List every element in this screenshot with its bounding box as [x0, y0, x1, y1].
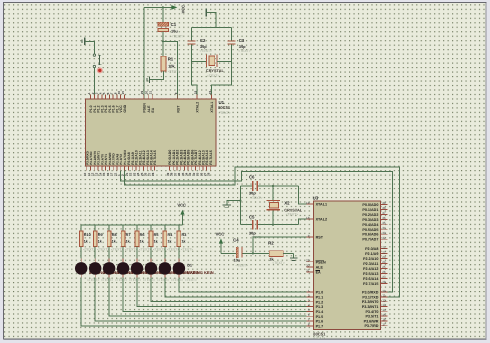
svg-text:VCC: VCC — [180, 5, 185, 14]
ground (R1) — [147, 76, 150, 83]
U3 pins P1.0-P1.7 — [307, 289, 325, 329]
svg-text:12: 12 — [382, 298, 386, 302]
part name CRYSTAL (X2) — [284, 208, 303, 213]
value 30p (C3) — [239, 44, 246, 49]
power terminal VCC (C4) — [216, 232, 225, 254]
svg-text:P2.2/A10: P2.2/A10 — [363, 257, 378, 261]
wire R2 to ground — [283, 252, 294, 254]
svg-text:P2.0/A8: P2.0/A8 — [365, 247, 378, 251]
U1 pin XTAL1 — [208, 91, 214, 113]
svg-text:ALE: ALE — [316, 266, 324, 270]
label CRYSTAL (X1) — [206, 68, 225, 73]
wire C6 to right rail — [258, 185, 299, 187]
svg-text:XTAL1: XTAL1 — [316, 203, 327, 207]
svg-text:C4: C4 — [233, 237, 239, 242]
svg-text:21: 21 — [382, 245, 386, 249]
part name (D6) — [117, 270, 144, 275]
wire right rail to C3 — [231, 27, 233, 40]
text placeholder (R6) — [139, 247, 151, 251]
value 1k (R3) — [182, 240, 186, 244]
text placeholder (R1) — [168, 69, 181, 73]
svg-text:<TEXT>: <TEXT> — [168, 69, 181, 73]
label C3 — [239, 38, 245, 43]
part name (D7) — [103, 270, 130, 275]
label D2 — [173, 263, 178, 267]
svg-text:31: 31 — [149, 91, 153, 95]
U3 pins P0.0-P0.7 — [362, 201, 387, 241]
text placeholder (R3) — [181, 247, 193, 251]
svg-text:P3.6/WR: P3.6/WR — [364, 319, 379, 323]
capacitor C6 — [252, 181, 258, 191]
svg-text:<TEXT>: <TEXT> — [272, 261, 285, 265]
text placeholder (R2) — [272, 261, 285, 265]
svg-text:27: 27 — [382, 275, 386, 279]
svg-text:14: 14 — [382, 308, 386, 312]
capacitor C5 — [252, 220, 258, 230]
label C1 — [171, 22, 177, 27]
wire to U3 XTAL1 — [299, 186, 307, 204]
svg-text:P2.7/A15: P2.7/A15 — [153, 150, 157, 165]
resistor R1 — [161, 56, 166, 71]
svg-text:34: 34 — [382, 226, 386, 230]
text placeholder (D7) — [101, 278, 113, 282]
ground (R2) — [290, 253, 298, 260]
label C5 — [249, 215, 255, 220]
text placeholder (C3) — [238, 49, 251, 53]
svg-text:17: 17 — [382, 322, 386, 326]
svg-text:P1.3: P1.3 — [316, 305, 324, 309]
svg-text:P3.7/RD: P3.7/RD — [364, 324, 378, 328]
value 10u (C4) — [234, 258, 241, 263]
part name (D3) — [159, 270, 186, 275]
U1 pins PSEN/ALE/EA — [140, 91, 155, 113]
svg-text:<TEXT>: <TEXT> — [218, 111, 231, 115]
LED D5 — [117, 259, 130, 278]
svg-text:<TEXT>: <TEXT> — [83, 247, 95, 251]
text placeholder (R9) — [97, 247, 109, 251]
value 1k (R5) — [154, 240, 158, 244]
label C2 — [200, 38, 206, 43]
label R4 — [168, 233, 174, 237]
svg-text:11: 11 — [382, 294, 385, 298]
label U3 — [313, 195, 319, 200]
value 30p (C2) — [200, 44, 207, 49]
svg-text:R9: R9 — [98, 233, 103, 237]
part name (D2) — [173, 270, 200, 275]
resistor R10 — [79, 225, 83, 259]
label R5 — [154, 233, 159, 237]
label U1 — [219, 100, 225, 105]
svg-text:<TEXT>: <TEXT> — [171, 278, 183, 282]
svg-text:25: 25 — [382, 265, 386, 269]
svg-text:28: 28 — [207, 172, 211, 176]
LED D8 — [75, 259, 88, 278]
value 10k (R1) — [168, 63, 175, 68]
svg-text:R10: R10 — [84, 233, 91, 237]
wire VCC rail to C1 — [162, 7, 164, 22]
svg-text:22: 22 — [382, 250, 386, 254]
svg-text:38: 38 — [382, 206, 386, 210]
LED D3 — [145, 259, 158, 278]
label R7 — [126, 233, 131, 237]
svg-text:GND: GND — [123, 104, 127, 112]
svg-text:18: 18 — [193, 91, 197, 95]
svg-text:<TEXT>: <TEXT> — [157, 278, 169, 282]
wire R1 to ground — [150, 71, 164, 80]
label X2 — [284, 201, 290, 206]
svg-text:R5: R5 — [154, 233, 159, 237]
svg-text:VCC: VCC — [177, 202, 186, 207]
svg-text:29: 29 — [306, 259, 310, 263]
wire C1 to R1 — [162, 32, 164, 57]
svg-text:P0.6/AD6: P0.6/AD6 — [362, 233, 378, 237]
wire VCC to U1 EA pin — [143, 7, 145, 99]
svg-text:6: 6 — [308, 313, 310, 317]
svg-text:28: 28 — [151, 172, 155, 176]
svg-text:5: 5 — [308, 308, 310, 312]
U1 pins P2.0-P2.7 (bottom middle) — [125, 150, 157, 176]
svg-text:P0.5/AD5: P0.5/AD5 — [362, 228, 378, 232]
svg-text:<TEXT>: <TEXT> — [101, 278, 113, 282]
U1 pins P3.0-P3.7 (bottom left) — [83, 149, 127, 176]
text placeholder (C2) — [199, 49, 212, 53]
label D1 — [187, 263, 192, 267]
svg-text:R3: R3 — [182, 233, 187, 237]
svg-text:9: 9 — [308, 234, 310, 238]
svg-text:<TEXT>: <TEXT> — [171, 35, 184, 39]
svg-text:RST: RST — [316, 236, 324, 240]
svg-text:1k: 1k — [182, 240, 186, 244]
svg-text:10: 10 — [382, 289, 386, 293]
svg-text:1k: 1k — [84, 240, 88, 244]
svg-text:R1: R1 — [168, 56, 174, 61]
svg-text:1k: 1k — [154, 240, 158, 244]
svg-text:19: 19 — [208, 91, 212, 95]
svg-text:D1: D1 — [187, 263, 192, 267]
svg-text:39: 39 — [382, 201, 386, 205]
power terminal VCC (top) — [144, 5, 186, 14]
wire to U3 XTAL2 — [299, 219, 307, 225]
value 1k (R10) — [84, 240, 88, 244]
resistor R9 — [93, 225, 97, 259]
ground (button) — [82, 37, 85, 44]
svg-text:R7: R7 — [126, 233, 131, 237]
svg-text:31: 31 — [306, 269, 310, 273]
text placeholder (R10) — [83, 247, 95, 251]
svg-text:P0.1/AD1: P0.1/AD1 — [362, 208, 378, 212]
ground (X2 caps) — [222, 201, 240, 208]
part name 80C51 (U1) — [218, 105, 231, 110]
wire left rail to crystal — [192, 61, 207, 63]
svg-text:<TEXT>: <TEXT> — [115, 278, 127, 282]
svg-text:24: 24 — [382, 260, 386, 264]
svg-text:PSEN: PSEN — [142, 103, 146, 113]
text placeholder (U1) — [218, 111, 231, 115]
text placeholder (R8) — [111, 247, 123, 251]
wire RST to U3 — [253, 237, 307, 253]
op U3 body — [313, 201, 380, 329]
value 1k (R8) — [112, 240, 116, 244]
label C4 — [233, 237, 239, 242]
svg-text:P3.0/RXD: P3.0/RXD — [362, 291, 379, 295]
label R6 — [140, 233, 145, 237]
svg-text:P1.5: P1.5 — [316, 315, 324, 319]
svg-text:C5: C5 — [249, 215, 255, 220]
wire bottom rail to C5 — [240, 224, 252, 226]
svg-text:7: 7 — [308, 318, 310, 322]
junction RST net — [252, 252, 254, 254]
svg-text:X2: X2 — [284, 201, 290, 206]
svg-text:<TEXT>: <TEXT> — [125, 247, 137, 251]
wire U1 TXD to U3 P3.0 — [121, 171, 393, 292]
value 1k (R9) — [98, 240, 102, 244]
svg-text:<TEXT>: <TEXT> — [139, 247, 151, 251]
wire D2 to U3 P1.1 — [165, 278, 307, 297]
svg-text:R6: R6 — [140, 233, 145, 237]
wire C3 to XTAL1 pin — [211, 45, 231, 100]
label D7 — [103, 263, 108, 267]
wire left rail to C2 — [191, 27, 193, 40]
junction ground tap — [239, 200, 241, 202]
svg-text:P3.2/INT0: P3.2/INT0 — [362, 300, 379, 304]
svg-text:EA: EA — [151, 107, 155, 112]
svg-text:32: 32 — [382, 236, 386, 240]
part name (D1) — [187, 270, 214, 275]
svg-text:<TEXT>: <TEXT> — [129, 278, 141, 282]
wire X2 left rail — [239, 186, 241, 225]
svg-text:C6: C6 — [249, 175, 255, 180]
svg-text:P2.5/A13: P2.5/A13 — [363, 272, 378, 276]
svg-text:10k: 10k — [168, 63, 175, 68]
svg-text:P0.2/AD2: P0.2/AD2 — [362, 213, 378, 217]
text placeholder (R5) — [153, 247, 165, 251]
text placeholder (D4) — [143, 278, 155, 282]
svg-text:13: 13 — [382, 303, 386, 307]
text placeholder (D8) — [87, 278, 99, 282]
junction X2 top — [272, 185, 274, 187]
svg-text:<TEXT>: <TEXT> — [97, 247, 109, 251]
svg-text:P3.3/INT1: P3.3/INT1 — [362, 305, 379, 309]
text placeholder (X1) — [207, 74, 220, 78]
U3 pins P2.0-P2.7 — [363, 245, 387, 286]
svg-text:P2.3/A11: P2.3/A11 — [363, 262, 378, 266]
svg-text:XTAL2: XTAL2 — [196, 102, 200, 113]
resistor R2 — [269, 251, 283, 257]
svg-text:23: 23 — [382, 255, 386, 259]
wire button to U1 P1.1 — [93, 68, 95, 100]
crystal X2 — [266, 200, 280, 211]
svg-text:<TEXT>: <TEXT> — [238, 49, 251, 53]
wire crystal top rail — [192, 26, 232, 28]
crystal X1 — [207, 55, 217, 68]
svg-text:1: 1 — [308, 289, 310, 293]
text placeholder (X2) — [286, 213, 299, 217]
svg-text:20: 20 — [121, 91, 125, 95]
ground (crystal loop) — [206, 9, 216, 28]
text placeholder (C4) — [235, 263, 248, 267]
value 1k (R6) — [140, 240, 144, 244]
label R9 — [98, 233, 103, 237]
wire C1 bottom to RST pin — [163, 41, 178, 99]
svg-text:U3: U3 — [313, 195, 319, 200]
svg-text:CRYSTAL: CRYSTAL — [206, 68, 225, 73]
U3 pins XTAL/RST/PSEN/ALE/EA — [306, 201, 327, 275]
svg-text:16: 16 — [382, 318, 386, 322]
U1 pins P0.0-P0.7 (bottom right) — [166, 150, 213, 176]
capacitor C4 — [236, 247, 242, 258]
junction C1/RST — [162, 40, 164, 42]
wire D5 to U3 P1.4 — [123, 278, 307, 312]
svg-text:P0.4/AD4: P0.4/AD4 — [362, 223, 379, 227]
svg-text:80C51: 80C51 — [218, 105, 231, 110]
svg-text:<TEXT>: <TEXT> — [250, 196, 263, 200]
svg-text:RST: RST — [176, 105, 180, 113]
label D5 — [131, 263, 136, 267]
resistor R5 — [149, 225, 153, 259]
svg-text:<TEXT>: <TEXT> — [199, 49, 212, 53]
svg-text:P2.4/A12: P2.4/A12 — [363, 267, 378, 271]
resistor R3 — [177, 225, 181, 259]
text placeholder (R7) — [125, 247, 137, 251]
svg-text:<TEXT>: <TEXT> — [207, 74, 220, 78]
svg-text:C3: C3 — [239, 38, 245, 43]
wire D1 to U3 P1.0 — [179, 278, 307, 293]
part name (D4) — [145, 270, 172, 275]
svg-text:P1.0: P1.0 — [316, 291, 324, 295]
LED D7 — [89, 259, 102, 278]
svg-text:<TEXT>: <TEXT> — [111, 247, 123, 251]
svg-text:1k: 1k — [98, 240, 102, 244]
label R3 — [182, 233, 187, 237]
part name (D5) — [131, 270, 158, 275]
capacitor C2 — [188, 40, 196, 44]
resistor R6 — [135, 225, 139, 259]
label R2 — [268, 240, 274, 245]
U1 pin XTAL2 — [193, 91, 199, 113]
wire D4 to U3 P1.3 — [137, 278, 307, 307]
svg-text:<TEXT>: <TEXT> — [313, 336, 325, 340]
push button SW1 — [93, 54, 101, 68]
svg-text:P2.6/A14: P2.6/A14 — [363, 277, 379, 281]
svg-text:33: 33 — [382, 231, 386, 235]
text placeholder (C5) — [250, 235, 263, 239]
wire D6 to U3 P1.5 — [109, 278, 306, 317]
power terminal VCC (LEDs) — [177, 202, 186, 225]
svg-text:30: 30 — [306, 264, 310, 268]
svg-text:<TEXT>: <TEXT> — [153, 247, 165, 251]
svg-text:10u: 10u — [171, 28, 178, 33]
svg-text:R2: R2 — [268, 240, 274, 245]
svg-text:P0.0/AD0: P0.0/AD0 — [362, 203, 378, 207]
svg-text:28: 28 — [382, 280, 386, 284]
U1 pins P1.0-P1.7 (top) — [87, 91, 127, 113]
svg-text:<TEXT>: <TEXT> — [181, 247, 193, 251]
label R8 — [112, 233, 117, 237]
resistor R8 — [107, 225, 111, 259]
svg-text:<TEXT>: <TEXT> — [143, 278, 155, 282]
wire D3 to U3 P1.2 — [151, 278, 307, 302]
text placeholder (D5) — [129, 278, 141, 282]
svg-text:P3.4/T0: P3.4/T0 — [365, 310, 378, 314]
value 1k (R2) — [269, 256, 274, 261]
text placeholder (D6) — [115, 278, 127, 282]
text placeholder (U3) — [313, 336, 325, 340]
svg-text:P0.7/AD7: P0.7/AD7 — [362, 238, 378, 242]
svg-text:XTAL2: XTAL2 — [316, 218, 327, 222]
wire C2 to XTAL2 pin — [192, 45, 197, 100]
wire crystal to right rail — [217, 61, 232, 63]
capacitor C3 — [228, 40, 236, 44]
text placeholder (D1) — [185, 278, 197, 282]
svg-text:R8: R8 — [112, 233, 117, 237]
resistor R7 — [121, 225, 125, 259]
svg-text:1k: 1k — [168, 240, 172, 244]
svg-text:36: 36 — [382, 216, 386, 220]
wire ground to button — [85, 41, 94, 53]
wire C5 to right rail — [258, 224, 299, 226]
svg-text:29: 29 — [140, 91, 144, 95]
svg-text:P1.2: P1.2 — [316, 300, 324, 304]
label D3 — [159, 263, 164, 267]
value 1k (R7) — [126, 240, 130, 244]
svg-text:<TEXT>: <TEXT> — [167, 247, 179, 251]
wire LED VCC rail — [81, 224, 182, 226]
label R1 — [168, 56, 174, 61]
svg-text:<TEXT>: <TEXT> — [235, 263, 248, 267]
svg-text:C1: C1 — [171, 22, 177, 27]
wire X2 to bottom rail — [272, 210, 274, 224]
label R10 — [84, 233, 91, 237]
svg-text:P0.3/AD3: P0.3/AD3 — [362, 218, 378, 222]
svg-text:4: 4 — [308, 303, 310, 307]
svg-text:C2: C2 — [200, 38, 206, 43]
svg-text:<TEXT>: <TEXT> — [185, 278, 197, 282]
svg-text:1k: 1k — [126, 240, 130, 244]
U3 pins P3.0-P3.7 — [362, 289, 388, 328]
wire top rail to X2 — [272, 186, 274, 200]
op U1 body — [86, 99, 217, 166]
svg-text:18: 18 — [306, 216, 310, 220]
svg-text:MARING KEIN: MARING KEIN — [187, 270, 214, 275]
svg-text:2: 2 — [308, 294, 310, 298]
svg-text:26: 26 — [382, 270, 386, 274]
value 30p (C6) — [249, 191, 256, 196]
value 30p (C5) — [249, 230, 256, 235]
svg-text:10u: 10u — [234, 258, 241, 263]
part name (D8) — [89, 270, 116, 275]
svg-text:1k: 1k — [112, 240, 116, 244]
svg-text:PSEN: PSEN — [316, 260, 326, 264]
svg-text:P1.6: P1.6 — [316, 320, 324, 324]
wire D7 to U3 P1.6 — [95, 278, 306, 321]
label D4 — [145, 263, 151, 267]
svg-text:P2.7/A15: P2.7/A15 — [209, 150, 213, 165]
svg-text:1k: 1k — [140, 240, 144, 244]
svg-text:<TEXT>: <TEXT> — [286, 213, 299, 217]
label D8 — [90, 263, 95, 267]
resistor R4 — [163, 225, 167, 259]
value 10u (C1) — [171, 28, 178, 33]
label C6 — [249, 175, 255, 180]
svg-text:P1.7: P1.7 — [316, 324, 324, 328]
svg-text:P1.4: P1.4 — [316, 310, 325, 314]
part name 80C51 (U3) — [313, 331, 326, 336]
svg-text:P3.1/TXD: P3.1/TXD — [362, 295, 378, 299]
svg-text:35: 35 — [382, 221, 386, 225]
svg-text:<TEXT>: <TEXT> — [87, 278, 99, 282]
svg-text:37: 37 — [382, 211, 386, 215]
text placeholder (D2) — [171, 278, 183, 282]
